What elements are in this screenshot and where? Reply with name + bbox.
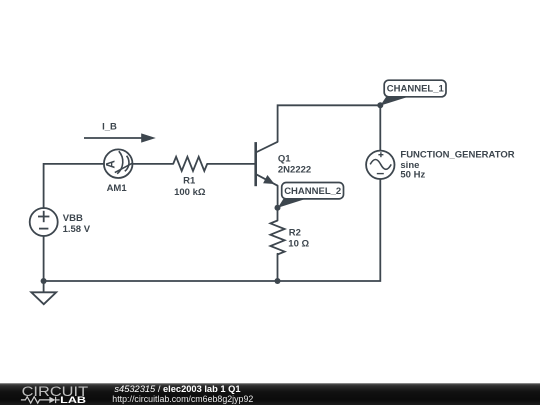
wire collector to top rail to FG top (278, 105, 381, 150)
transistor Q1 emitter arrow (263, 175, 274, 184)
wire ammeter to R1 (132, 163, 173, 165)
transistor Q1 (256, 142, 278, 186)
svg-text:R2: R2 (289, 227, 301, 238)
junction node top rail (377, 102, 383, 108)
label CHANNEL_2 flag (278, 183, 344, 208)
wire R2 bottom to rail (277, 254, 279, 281)
footer logo resistor-diode glyph (21, 397, 60, 403)
svg-text:LAB: LAB (60, 395, 86, 405)
junction node ground (41, 278, 47, 284)
svg-text:A: A (105, 160, 117, 168)
svg-text:R1: R1 (183, 176, 196, 187)
svg-text:VBB: VBB (63, 213, 83, 224)
svg-text:50 Hz: 50 Hz (400, 169, 425, 180)
svg-text:CHANNEL_1: CHANNEL_1 (387, 84, 445, 95)
resistor R2 (270, 221, 284, 255)
svg-text:http://circuitlab.com/cm6eb8g2: http://circuitlab.com/cm6eb8g2jyp92 (112, 394, 253, 404)
svg-text:10 Ω: 10 Ω (288, 238, 309, 249)
ammeter AM1 (104, 149, 133, 178)
svg-text:CHANNEL_2: CHANNEL_2 (284, 186, 341, 197)
footer bar (0, 383, 540, 405)
junction node R2 bottom (275, 278, 281, 284)
svg-text:AM1: AM1 (107, 183, 128, 194)
wire node to R2 top (277, 208, 279, 221)
wire emitter vertical to node (277, 186, 279, 208)
svg-text:2N2222: 2N2222 (278, 165, 311, 176)
ground (31, 292, 56, 304)
svg-text:Q1: Q1 (278, 154, 291, 165)
svg-text:s4532315 / elec2003 lab 1 Q1: s4532315 / elec2003 lab 1 Q1 (114, 384, 240, 394)
wire ground stem (43, 281, 45, 292)
svg-text:1.58 V: 1.58 V (63, 224, 91, 235)
wire VBB top to main rail to ammeter (44, 164, 104, 208)
junction node emitter/CHANNEL_2 (275, 205, 281, 211)
function generator source (366, 151, 394, 179)
resistor R1 (173, 157, 207, 171)
svg-text:100 kΩ: 100 kΩ (174, 187, 206, 198)
wire R1 to Q1 base (207, 163, 255, 165)
svg-text:I_B: I_B (102, 122, 117, 133)
voltage source VBB (30, 208, 58, 236)
label CHANNEL_1 flag (380, 80, 446, 105)
wire VBB bottom to bottom rail to FG bottom (44, 179, 381, 281)
current arrow I_B (84, 133, 156, 142)
